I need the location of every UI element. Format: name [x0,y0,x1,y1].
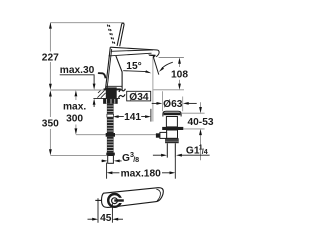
lever detail ring gap [119,198,124,203]
faucet body left edge [105,47,110,90]
faucet spout under line [109,53,152,56]
dimension 227 vertical line [49,22,52,155]
svg-text:/8: /8 [133,155,139,164]
lever handle raised [117,23,124,46]
lever detail ring [108,194,121,207]
lever detail rod [95,199,101,201]
svg-text:Ø63: Ø63 [163,99,183,110]
supply shank through-deck hardware [106,87,117,98]
dimension 40-53 [181,102,214,160]
deck break squiggle bottom [119,94,126,97]
drain seal ring [162,127,183,130]
drain flange dark band [164,113,181,116]
deck bottom line [93,97,120,99]
svg-text:max.180: max.180 [121,168,162,179]
svg-text:300: 300 [66,113,83,124]
svg-text:max.30: max.30 [60,65,95,76]
rod coupling on pipe [106,133,115,137]
drain thread band [165,138,179,143]
faucet shoulder edge [116,56,122,90]
svg-text:45: 45 [100,213,112,224]
base gasket band [104,88,121,90]
threaded shank upper [107,104,114,133]
drain tailpipe walls [167,143,175,157]
svg-text:G: G [122,153,130,164]
drain rod knob [156,133,160,137]
svg-text:350: 350 [42,119,59,130]
dimension 45 [88,198,124,224]
deck break squiggle top [119,89,126,92]
svg-text:/4: /4 [202,147,208,156]
svg-text:G1: G1 [186,146,200,157]
svg-text:141: 141 [124,112,141,123]
dimension max.30 [60,65,96,107]
lever handle dashed position [107,25,115,45]
label G1 1/4 [153,142,210,156]
extension line bottom (350 level) [50,154,106,156]
dimension max.300 [63,90,86,134]
dimension 141 [113,109,151,123]
pop-up rod horizontal [76,134,156,136]
label G3/8 [101,150,139,164]
lever detail inner tip line [156,189,160,201]
aerator dark band [148,55,155,57]
pipe thread hatch [107,106,113,150]
deck hatching left strokes [97,91,105,98]
lever detail outline [102,188,164,208]
drain lower body [167,130,178,138]
faucet body bottom line [106,85,122,87]
svg-text:15°: 15° [126,61,141,72]
deck top line [50,89,120,91]
threaded pipe lower [107,137,114,153]
drain rod port [160,132,167,138]
faucet spout spine [110,47,157,50]
svg-text:227: 227 [42,53,59,64]
dimension 108 [153,58,188,90]
drain neck [166,117,177,127]
svg-text:108: 108 [171,69,188,80]
label diameter 63 [152,91,197,111]
mounting nut [103,99,118,104]
water stream vertical reference [152,57,154,122]
shank white joint band [106,114,114,118]
lever detail inner circle [112,198,118,204]
faucet body left inner edge [107,49,112,90]
faucet spout mid line [111,50,153,51]
pipe end cap [106,153,115,156]
label 15 degrees with leader [123,61,173,73]
svg-text:Ø34: Ø34 [129,92,149,103]
pop-up pull knob [99,73,106,78]
water stream 15 degree line [153,57,159,75]
dimension max.180 [107,158,176,180]
boxed label diameter 34 [127,91,151,103]
extension line top (lever tip level) [50,22,124,24]
svg-text:max.: max. [63,102,86,113]
svg-text:40-53: 40-53 [187,117,213,128]
drain flange dome [163,111,181,116]
G3/8 pipe stub [108,156,114,164]
spout tip cap [156,50,159,57]
lever detail crossbar [114,199,124,201]
